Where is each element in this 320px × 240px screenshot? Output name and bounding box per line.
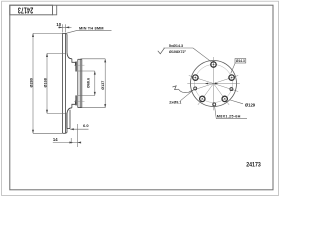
svg-text:Ø129: Ø129 (245, 102, 256, 107)
dim 14 (53, 138, 81, 144)
bore line top (78, 70, 95, 72)
radial centerline 306 (214, 84, 230, 105)
svg-text:Ø137: Ø137 (101, 81, 105, 90)
lip chamfer top (66, 32, 67, 35)
bolt hole top (90) (211, 62, 216, 67)
bolt hole centerline top (74, 64, 85, 66)
S-curve bottom (67, 108, 72, 114)
section hatch bottom (75, 95, 76, 105)
svg-text:14: 14 (53, 137, 58, 142)
svg-text:Ø68.6: Ø68.6 (86, 78, 90, 88)
hat step bottom (72, 101, 76, 108)
svg-text:2xØ9.1: 2xØ9.1 (169, 100, 181, 104)
small hole right (342) (230, 88, 233, 91)
S-curve top (67, 53, 72, 59)
MIN TH 8MM note (67, 30, 78, 33)
disc bottom edge (62, 132, 65, 134)
hub outer circle Ø129 (191, 61, 237, 107)
flange bottom edge (78, 107, 82, 109)
svg-text:Ø108X72°: Ø108X72° (169, 50, 187, 54)
svg-text:Ø168: Ø168 (44, 78, 48, 87)
label 5x holes (164, 44, 212, 62)
dim Ø139 (flange) (81, 59, 107, 108)
bolt hole centerline bottom (74, 101, 85, 103)
small hole left (198) (194, 87, 197, 90)
lip chamfer bottom (66, 132, 67, 135)
drum wall bottom inner (69, 110, 71, 129)
label 2x holes (169, 90, 193, 105)
A-flag squiggle (173, 86, 179, 90)
bolt hole 306 (222, 96, 227, 101)
bolt hole 234 (200, 96, 205, 101)
centerline vertical (213, 57, 215, 110)
centerline horizontal (187, 83, 240, 85)
bore line bottom (78, 95, 95, 97)
svg-text:24173: 24173 (17, 6, 33, 15)
PCD circle (195, 65, 233, 103)
bolt hole 162 (193, 75, 198, 80)
disc left face (61, 33, 63, 133)
diagonal centerline 18-198 (189, 76, 238, 92)
PCD diameter arrowheads near center (205, 83, 218, 85)
bolt hole 18 (229, 75, 234, 80)
dim Ø72.5 (bore) (94, 71, 96, 96)
radial centerline 234 (198, 84, 214, 105)
svg-text:5xØ14.3: 5xØ14.3 (169, 44, 183, 48)
hat step top (72, 59, 76, 66)
svg-text:Ø280: Ø280 (30, 78, 34, 87)
svg-text:MIN TH 8MM: MIN TH 8MM (79, 25, 104, 30)
flange face lines (77, 59, 79, 107)
tab second cell divider (53, 5, 57, 15)
section hatch top (75, 62, 76, 72)
outer border frame (2, 1, 279, 195)
dim Ø168 (46, 53, 66, 113)
lip line bottom (66, 114, 68, 133)
label M8 thread (215, 106, 248, 119)
inner border frame (10, 5, 273, 190)
lip line top (66, 34, 68, 53)
svg-text:10: 10 (56, 22, 61, 27)
disc right face (65, 33, 67, 133)
svg-text:6.0: 6.0 (83, 123, 89, 128)
dim 6.0 (70, 124, 88, 147)
title tab box top-left (10, 5, 53, 15)
svg-text:Ø14.3: Ø14.3 (236, 59, 245, 63)
machining checkmark (158, 48, 165, 54)
disc top edge (62, 32, 65, 34)
boxed dim label (231, 59, 246, 74)
svg-text:24173: 24173 (246, 161, 261, 168)
small hole bottom (267) (213, 103, 216, 106)
drum wall bottom outer (66, 113, 68, 129)
dim 10 (thickness) (58, 24, 72, 32)
drum rim end face (67, 128, 70, 130)
diagonal centerline 162-342 (189, 76, 238, 92)
label Ø129 (230, 100, 256, 107)
flange top edge (78, 58, 82, 60)
svg-text:M8X1.25-6H: M8X1.25-6H (217, 115, 241, 119)
dim Ø280 (32, 33, 62, 133)
